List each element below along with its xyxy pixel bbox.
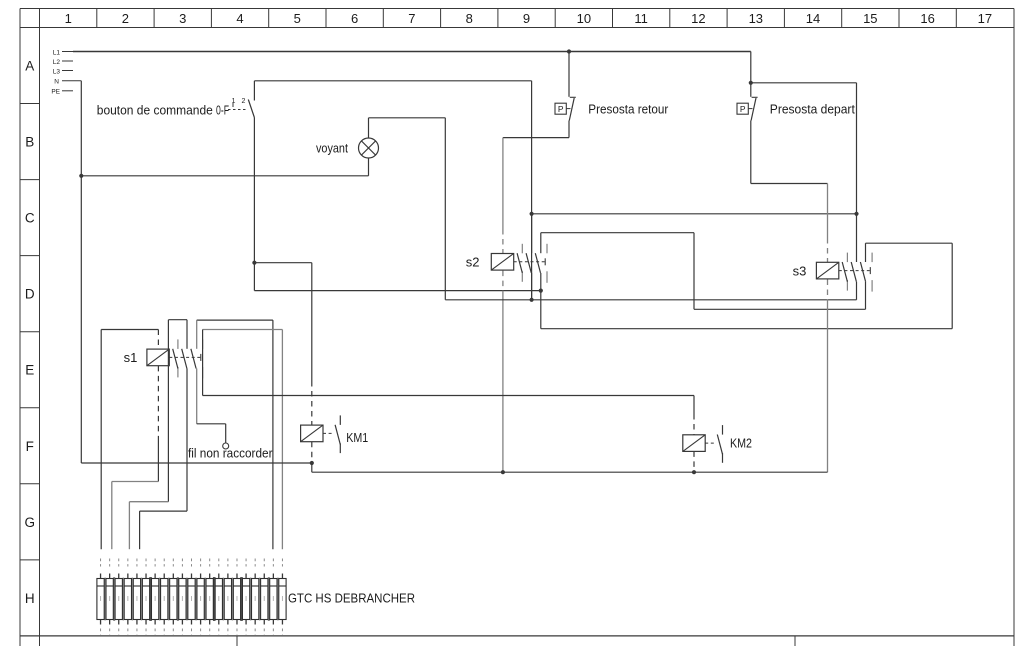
wire s3 contact3 vertical	[865, 243, 867, 309]
wire branch to KM1 coil	[254, 262, 311, 264]
junction presosta depart branch	[749, 81, 753, 85]
svg-text:Presosta retour: Presosta retour	[588, 102, 669, 117]
svg-text:12: 12	[691, 11, 705, 26]
svg-text:s3: s3	[793, 263, 807, 278]
wire KM2 coil top	[693, 396, 695, 435]
wire B down	[693, 233, 695, 310]
lamp voyant	[316, 138, 379, 158]
svg-text:14: 14	[806, 11, 820, 26]
svg-text:D: D	[25, 287, 35, 302]
svg-text:17: 17	[978, 11, 992, 26]
wire G	[203, 395, 694, 397]
wire presosta retour to s2 coil	[503, 137, 569, 139]
svg-text:0-F: 0-F	[216, 103, 229, 118]
svg-text:7: 7	[408, 11, 415, 26]
wire rect4 right	[281, 330, 283, 550]
svg-text:L3: L3	[53, 69, 61, 76]
wire voyant bottom	[368, 158, 370, 176]
svg-text:2: 2	[242, 98, 246, 105]
svg-text:L1: L1	[53, 50, 61, 57]
wire fil non raccorder vertical	[196, 320, 198, 424]
svg-text:P: P	[740, 104, 746, 114]
svg-text:15: 15	[863, 11, 877, 26]
junction KM2-I	[692, 470, 696, 474]
wire A s2-s3	[532, 213, 857, 215]
svg-text:s1: s1	[124, 350, 138, 365]
wire rect4 top	[203, 329, 283, 331]
svg-text:KM2: KM2	[730, 436, 752, 451]
node N	[54, 79, 81, 86]
svg-text:2: 2	[122, 11, 129, 26]
junction C end	[539, 289, 543, 293]
wire s1 contact2 vertical	[186, 320, 188, 511]
wire s2 contact3 vertical	[540, 233, 542, 329]
svg-text:KM1: KM1	[346, 430, 368, 445]
svg-text:s2: s2	[466, 255, 480, 270]
wire s1 coil vertical	[157, 330, 159, 482]
pressure switch Presosta depart	[737, 52, 855, 184]
svg-text:N: N	[54, 79, 59, 86]
wire I	[312, 471, 828, 473]
wire D	[445, 299, 856, 301]
junction bouton-KM1 branch	[252, 261, 256, 265]
svg-text:1: 1	[65, 11, 72, 26]
terminal fil non raccorder	[188, 443, 273, 461]
wire KM1 coil vertical	[311, 263, 313, 425]
wire B	[541, 232, 694, 234]
wire s3 coil vertical	[827, 184, 829, 473]
svg-text:F: F	[26, 439, 34, 454]
svg-text:P: P	[558, 104, 564, 114]
svg-text:PE: PE	[51, 89, 60, 96]
wire s3 contact2 upper	[856, 83, 858, 262]
contactor coil KM1	[301, 415, 369, 453]
wire KM1 coil bottom	[311, 442, 313, 463]
wire x531 vertical	[531, 81, 533, 300]
svg-text:A: A	[25, 59, 34, 74]
svg-text:6: 6	[351, 11, 358, 26]
svg-text:E: E	[25, 363, 34, 378]
wire voyant right vertical	[444, 118, 446, 300]
svg-text:4: 4	[236, 11, 243, 26]
terminal strip GTC	[97, 559, 286, 635]
svg-text:Presosta depart: Presosta depart	[770, 102, 855, 117]
wire depart to s3 coil	[751, 183, 828, 185]
wire fil non raccorder jog	[197, 424, 226, 443]
svg-text:voyant: voyant	[316, 141, 348, 156]
wire jog B	[129, 502, 168, 550]
node L3	[53, 69, 73, 76]
svg-text:9: 9	[523, 11, 530, 26]
svg-text:bouton de commande: bouton de commande	[97, 103, 213, 118]
wire N to voyant bottom	[81, 175, 368, 177]
wire jog A	[112, 482, 159, 550]
svg-text:GTC HS DEBRANCHER: GTC HS DEBRANCHER	[288, 591, 415, 606]
svg-text:11: 11	[634, 11, 648, 26]
junction D mid	[530, 298, 534, 302]
junction s2coil-I	[501, 470, 505, 474]
wire s2 contact2 upper	[531, 214, 533, 253]
wire rect2	[168, 320, 187, 502]
pressure switch Presosta retour	[555, 52, 669, 138]
wire rect3 top	[197, 319, 273, 321]
wire H	[81, 462, 311, 464]
wire E	[694, 308, 866, 310]
relay s1	[124, 339, 203, 378]
wire s2 contact2 lower	[531, 273, 533, 300]
junction N-voyant	[79, 174, 83, 178]
wire N vertical	[80, 81, 82, 463]
wire s2 coil vertical	[502, 138, 504, 473]
svg-text:13: 13	[749, 11, 763, 26]
svg-text:16: 16	[920, 11, 934, 26]
wire jog C	[140, 511, 187, 549]
svg-text:B: B	[25, 135, 34, 150]
wire loop right vertical	[951, 243, 953, 329]
wire depart branch top	[751, 82, 857, 84]
wire s3 contact2 lower	[856, 282, 858, 300]
relay s2	[466, 244, 547, 283]
wire node C horizontal	[254, 290, 540, 292]
svg-text:5: 5	[294, 11, 301, 26]
svg-text:L2: L2	[53, 59, 61, 66]
junction A left	[530, 212, 534, 216]
wire F	[541, 328, 952, 330]
label GTC HS DEBRANCHER	[288, 591, 415, 606]
svg-text:fil non raccorder: fil non raccorder	[188, 446, 273, 461]
relay s3	[793, 253, 873, 292]
wire KM2 coil bottom	[693, 451, 695, 472]
wire rect4 left	[202, 330, 204, 396]
junction A right	[854, 212, 858, 216]
wire L1 horizontal	[73, 51, 751, 53]
svg-text:H: H	[25, 591, 35, 606]
wire KM1 to I	[311, 463, 313, 472]
wire rect3 right	[272, 320, 274, 549]
wire bouton down	[253, 118, 255, 291]
node PE	[51, 89, 73, 96]
contactor coil KM2	[683, 425, 752, 463]
svg-text:8: 8	[466, 11, 473, 26]
wire bouton top	[254, 81, 531, 101]
svg-text:3: 3	[179, 11, 186, 26]
svg-text:10: 10	[577, 11, 591, 26]
node L1	[53, 50, 73, 57]
switch bouton de commande 0-F	[97, 98, 255, 118]
wire left rect	[101, 330, 158, 550]
junction KM1-H	[310, 461, 314, 465]
wire voyant top	[369, 118, 446, 138]
junction L1 presosta retour	[567, 49, 571, 53]
svg-text:G: G	[24, 515, 35, 530]
wire loop top	[866, 242, 953, 244]
svg-text:C: C	[25, 211, 35, 226]
node L2	[53, 59, 73, 66]
